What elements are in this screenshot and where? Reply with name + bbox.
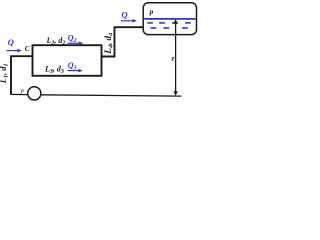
svg-text:P: P — [19, 88, 24, 95]
svg-text:Q: Q — [122, 9, 128, 19]
svg-text:L4, d4: L4, d4 — [103, 33, 115, 55]
svg-text:Q: Q — [8, 37, 14, 47]
svg-text:C: C — [25, 45, 30, 53]
svg-text:z: z — [170, 54, 174, 63]
svg-text:p: p — [149, 7, 154, 16]
